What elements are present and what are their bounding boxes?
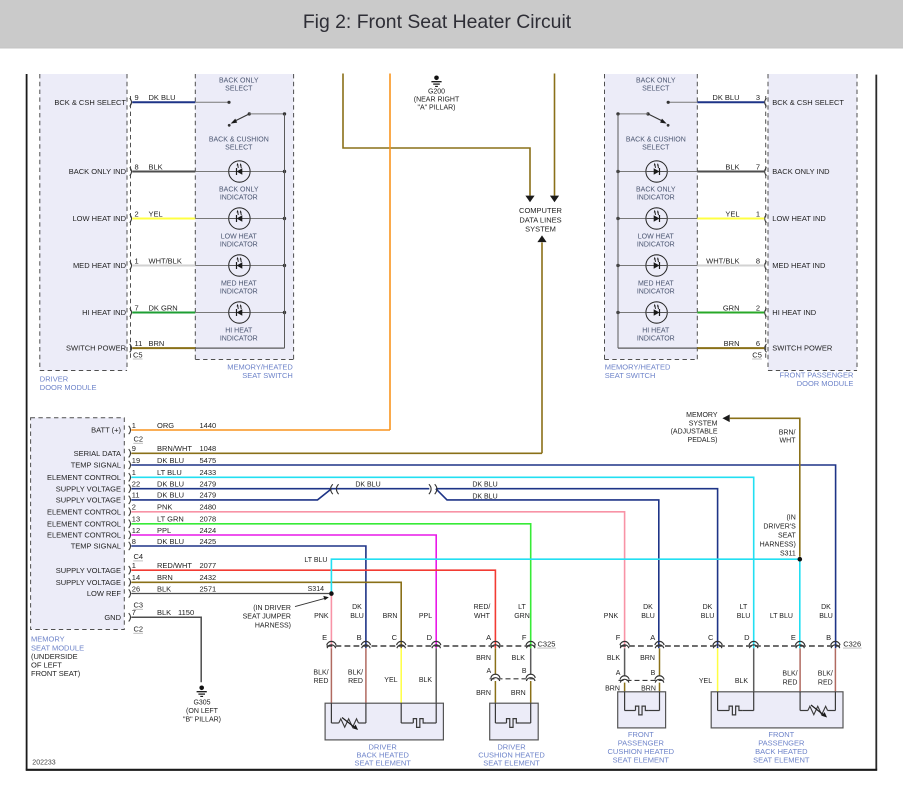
- svg-text:COMPUTER: COMPUTER: [519, 206, 563, 215]
- svg-text:C: C: [708, 633, 714, 642]
- svg-text:(NEAR RIGHT: (NEAR RIGHT: [414, 97, 460, 104]
- svg-text:SUPPLY VOLTAGE: SUPPLY VOLTAGE: [56, 578, 121, 587]
- svg-text:SELECT: SELECT: [225, 86, 253, 93]
- svg-text:DK BLU: DK BLU: [157, 491, 184, 500]
- svg-text:RED: RED: [348, 678, 363, 685]
- svg-text:RED: RED: [818, 679, 833, 686]
- svg-text:ORG: ORG: [157, 421, 174, 430]
- svg-text:12: 12: [132, 526, 140, 535]
- svg-text:BLU: BLU: [819, 613, 833, 620]
- svg-text:DK: DK: [703, 604, 713, 611]
- svg-text:PNK: PNK: [157, 503, 172, 512]
- svg-text:2: 2: [132, 503, 136, 512]
- svg-text:ELEMENT CONTROL: ELEMENT CONTROL: [47, 473, 121, 482]
- svg-text:BLU: BLU: [701, 613, 715, 620]
- svg-text:2425: 2425: [200, 537, 217, 546]
- svg-text:"B" PILLAR): "B" PILLAR): [183, 717, 221, 724]
- svg-text:8: 8: [756, 256, 760, 265]
- svg-text:B: B: [826, 633, 831, 642]
- svg-text:ELEMENT CONTROL: ELEMENT CONTROL: [47, 519, 121, 528]
- svg-text:SUPPLY VOLTAGE: SUPPLY VOLTAGE: [56, 566, 121, 575]
- svg-text:BLK/: BLK/: [348, 670, 363, 677]
- svg-text:BACK ONLY: BACK ONLY: [636, 78, 676, 85]
- svg-text:SWITCH POWER: SWITCH POWER: [772, 344, 833, 353]
- svg-text:GRN: GRN: [514, 613, 530, 620]
- svg-text:LT GRN: LT GRN: [157, 515, 184, 524]
- svg-text:SEAT JUMPER: SEAT JUMPER: [243, 614, 291, 621]
- svg-text:F: F: [616, 633, 621, 642]
- svg-text:2077: 2077: [200, 561, 217, 570]
- svg-text:G200: G200: [428, 89, 445, 96]
- svg-text:1048: 1048: [200, 444, 217, 453]
- svg-text:INDICATOR: INDICATOR: [220, 336, 258, 343]
- svg-text:C326: C326: [843, 639, 861, 648]
- svg-text:DK: DK: [821, 604, 831, 611]
- svg-text:SWITCH POWER: SWITCH POWER: [66, 344, 127, 353]
- svg-text:BATT (+): BATT (+): [91, 426, 121, 435]
- svg-text:Fig 2: Front Seat Heater Circu: Fig 2: Front Seat Heater Circuit: [303, 11, 572, 33]
- svg-text:DK: DK: [643, 604, 653, 611]
- svg-text:B: B: [651, 670, 656, 677]
- svg-text:FRONT SEAT): FRONT SEAT): [31, 669, 81, 678]
- svg-text:YEL: YEL: [699, 678, 712, 685]
- svg-text:8: 8: [135, 162, 139, 171]
- svg-text:RED/: RED/: [474, 604, 491, 611]
- svg-text:BLK: BLK: [149, 162, 163, 171]
- svg-text:PPL: PPL: [157, 526, 171, 535]
- svg-text:SYSTEM: SYSTEM: [525, 225, 556, 234]
- svg-text:INDICATOR: INDICATOR: [220, 195, 258, 202]
- svg-text:DK BLU: DK BLU: [157, 537, 184, 546]
- svg-text:BLU: BLU: [350, 613, 364, 620]
- svg-text:LT BLU: LT BLU: [770, 613, 793, 620]
- svg-text:8: 8: [132, 537, 136, 546]
- svg-text:2571: 2571: [200, 584, 217, 593]
- svg-text:DOOR MODULE: DOOR MODULE: [40, 383, 97, 392]
- svg-text:1: 1: [135, 256, 139, 265]
- svg-text:1: 1: [132, 468, 136, 477]
- svg-text:TEMP SIGNAL: TEMP SIGNAL: [71, 461, 121, 470]
- svg-text:INDICATOR: INDICATOR: [637, 195, 675, 202]
- svg-text:BCK & CSH SELECT: BCK & CSH SELECT: [772, 98, 844, 107]
- svg-text:BACK ONLY: BACK ONLY: [219, 187, 259, 194]
- svg-text:PNK: PNK: [314, 613, 329, 620]
- svg-text:BRN/WHT: BRN/WHT: [157, 444, 192, 453]
- svg-text:SEAT ELEMENT: SEAT ELEMENT: [613, 756, 670, 765]
- svg-text:YEL: YEL: [384, 677, 397, 684]
- svg-text:SUPPLY VOLTAGE: SUPPLY VOLTAGE: [56, 484, 121, 493]
- svg-text:1150: 1150: [178, 608, 194, 617]
- svg-text:7: 7: [756, 162, 760, 171]
- svg-text:(ADJUSTABLE: (ADJUSTABLE: [671, 429, 718, 436]
- svg-text:B: B: [522, 668, 527, 675]
- svg-text:BLK: BLK: [735, 678, 749, 685]
- svg-text:E: E: [791, 633, 796, 642]
- svg-text:INDICATOR: INDICATOR: [220, 242, 258, 249]
- svg-text:1440: 1440: [200, 421, 217, 430]
- svg-text:LOW HEAT: LOW HEAT: [221, 234, 258, 241]
- svg-text:PNK: PNK: [604, 613, 619, 620]
- svg-text:ELEMENT CONTROL: ELEMENT CONTROL: [47, 507, 121, 516]
- svg-text:YEL: YEL: [725, 209, 739, 218]
- svg-text:C2: C2: [134, 625, 144, 634]
- svg-text:1: 1: [132, 421, 136, 430]
- svg-text:LT BLU: LT BLU: [304, 557, 327, 564]
- svg-text:MED HEAT: MED HEAT: [221, 281, 257, 288]
- svg-text:9: 9: [132, 444, 136, 453]
- svg-text:DK: DK: [352, 604, 362, 611]
- svg-text:F: F: [522, 633, 527, 642]
- svg-text:RED: RED: [783, 679, 798, 686]
- svg-text:GND: GND: [104, 613, 121, 622]
- svg-text:BRN: BRN: [724, 339, 740, 348]
- svg-text:WHT/BLK: WHT/BLK: [149, 256, 182, 265]
- svg-text:HI HEAT: HI HEAT: [225, 328, 253, 335]
- svg-text:HI HEAT IND: HI HEAT IND: [772, 308, 816, 317]
- svg-text:2: 2: [135, 209, 139, 218]
- svg-text:MED HEAT: MED HEAT: [638, 281, 674, 288]
- svg-text:11: 11: [132, 491, 140, 500]
- svg-text:MEMORY: MEMORY: [31, 635, 65, 644]
- svg-text:(ON LEFT: (ON LEFT: [186, 708, 219, 715]
- svg-text:INDICATOR: INDICATOR: [637, 289, 675, 296]
- svg-text:5475: 5475: [200, 456, 217, 465]
- svg-text:LT: LT: [740, 604, 748, 611]
- svg-text:BLU: BLU: [641, 613, 655, 620]
- svg-text:LOW HEAT IND: LOW HEAT IND: [73, 214, 127, 223]
- svg-text:A: A: [487, 668, 492, 675]
- svg-text:BCK & CSH SELECT: BCK & CSH SELECT: [54, 98, 126, 107]
- svg-text:SEAT ELEMENT: SEAT ELEMENT: [483, 759, 540, 768]
- svg-text:DOOR MODULE: DOOR MODULE: [797, 379, 854, 388]
- svg-text:S311: S311: [780, 550, 796, 557]
- svg-text:2078: 2078: [200, 515, 217, 524]
- svg-text:RED/WHT: RED/WHT: [157, 561, 192, 570]
- svg-text:BLK/: BLK/: [818, 671, 833, 678]
- svg-text:19: 19: [132, 456, 140, 465]
- svg-text:SYSTEM: SYSTEM: [689, 420, 718, 427]
- svg-text:BACK & CUSHION: BACK & CUSHION: [626, 136, 686, 143]
- svg-text:LT BLU: LT BLU: [157, 468, 182, 477]
- svg-text:PEDALS): PEDALS): [688, 437, 718, 444]
- svg-text:BLK: BLK: [419, 677, 433, 684]
- svg-text:BACK & CUSHION: BACK & CUSHION: [209, 136, 269, 143]
- svg-text:G305: G305: [193, 699, 210, 706]
- svg-text:9: 9: [135, 93, 139, 102]
- svg-text:MEMORY: MEMORY: [686, 412, 718, 419]
- svg-text:WHT: WHT: [780, 438, 797, 445]
- svg-text:BACK ONLY: BACK ONLY: [219, 78, 259, 85]
- svg-text:ELEMENT CONTROL: ELEMENT CONTROL: [47, 531, 121, 540]
- svg-text:DK BLU: DK BLU: [157, 480, 184, 489]
- svg-text:C: C: [392, 633, 398, 642]
- svg-text:DK BLU: DK BLU: [712, 93, 739, 102]
- svg-text:2433: 2433: [200, 468, 217, 477]
- svg-text:2432: 2432: [200, 573, 217, 582]
- svg-text:DRIVER'S: DRIVER'S: [763, 523, 796, 530]
- svg-text:B: B: [357, 633, 362, 642]
- svg-text:SELECT: SELECT: [642, 86, 670, 93]
- svg-text:DK BLU: DK BLU: [472, 481, 497, 488]
- svg-text:11: 11: [135, 339, 143, 348]
- svg-text:2480: 2480: [200, 503, 217, 512]
- svg-text:LOW HEAT IND: LOW HEAT IND: [772, 214, 826, 223]
- svg-text:SEAT ELEMENT: SEAT ELEMENT: [753, 756, 810, 765]
- svg-text:2: 2: [756, 303, 760, 312]
- svg-text:26: 26: [132, 584, 140, 593]
- svg-text:D: D: [744, 633, 750, 642]
- svg-text:YEL: YEL: [149, 209, 163, 218]
- svg-text:BLK/: BLK/: [313, 670, 328, 677]
- svg-text:BLK: BLK: [512, 655, 526, 662]
- svg-text:3: 3: [756, 93, 760, 102]
- svg-text:C3: C3: [134, 601, 144, 610]
- svg-text:1: 1: [132, 561, 136, 570]
- svg-text:INDICATOR: INDICATOR: [220, 289, 258, 296]
- svg-text:2424: 2424: [200, 526, 217, 535]
- svg-text:DATA LINES: DATA LINES: [519, 215, 561, 224]
- svg-text:BACK ONLY: BACK ONLY: [636, 187, 676, 194]
- svg-text:BRN/: BRN/: [779, 429, 796, 436]
- svg-text:BLK: BLK: [725, 162, 739, 171]
- svg-text:SEAT ELEMENT: SEAT ELEMENT: [354, 759, 411, 768]
- svg-text:DK BLU: DK BLU: [149, 93, 176, 102]
- svg-text:(IN: (IN: [786, 515, 795, 522]
- svg-text:BACK ONLY IND: BACK ONLY IND: [69, 167, 127, 176]
- svg-text:HARNESS): HARNESS): [760, 541, 796, 548]
- svg-text:BRN: BRN: [383, 613, 398, 620]
- svg-text:GRN: GRN: [723, 303, 740, 312]
- svg-text:1: 1: [756, 209, 760, 218]
- svg-text:INDICATOR: INDICATOR: [637, 336, 675, 343]
- svg-text:INDICATOR: INDICATOR: [637, 242, 675, 249]
- svg-text:TEMP SIGNAL: TEMP SIGNAL: [71, 542, 121, 551]
- svg-text:SUPPLY VOLTAGE: SUPPLY VOLTAGE: [56, 496, 121, 505]
- svg-text:C325: C325: [538, 639, 556, 648]
- svg-text:BACK ONLY IND: BACK ONLY IND: [772, 167, 830, 176]
- svg-text:HARNESS): HARNESS): [255, 622, 291, 629]
- svg-text:BRN: BRN: [476, 690, 491, 697]
- svg-text:SEAT SWITCH: SEAT SWITCH: [605, 371, 656, 380]
- svg-text:BRN: BRN: [157, 573, 173, 582]
- svg-text:WHT/BLK: WHT/BLK: [706, 256, 739, 265]
- svg-text:A: A: [650, 633, 655, 642]
- svg-text:7: 7: [135, 303, 139, 312]
- svg-text:HI HEAT IND: HI HEAT IND: [82, 308, 126, 317]
- svg-text:E: E: [322, 633, 327, 642]
- svg-text:BRN: BRN: [476, 655, 491, 662]
- svg-text:D: D: [427, 633, 433, 642]
- svg-text:SEAT SWITCH: SEAT SWITCH: [242, 371, 293, 380]
- svg-text:2479: 2479: [200, 480, 217, 489]
- svg-text:"A" PILLAR): "A" PILLAR): [417, 105, 455, 112]
- svg-text:LOW REF: LOW REF: [87, 589, 122, 598]
- svg-text:2479: 2479: [200, 491, 217, 500]
- svg-text:BLK: BLK: [157, 608, 171, 617]
- svg-text:BLU: BLU: [737, 613, 751, 620]
- svg-text:SELECT: SELECT: [642, 144, 670, 151]
- svg-text:DK GRN: DK GRN: [149, 303, 178, 312]
- svg-text:13: 13: [132, 515, 140, 524]
- svg-text:A: A: [616, 670, 621, 677]
- svg-text:S314: S314: [308, 586, 324, 593]
- svg-text:C5: C5: [752, 350, 762, 359]
- svg-text:BLK: BLK: [607, 655, 621, 662]
- svg-text:(IN DRIVER: (IN DRIVER: [253, 605, 291, 612]
- svg-text:LOW HEAT: LOW HEAT: [638, 234, 675, 241]
- svg-text:C4: C4: [134, 552, 144, 561]
- svg-text:BRN: BRN: [511, 690, 526, 697]
- svg-text:22: 22: [132, 480, 140, 489]
- svg-text:A: A: [486, 633, 491, 642]
- svg-text:SERIAL DATA: SERIAL DATA: [74, 449, 121, 458]
- svg-text:14: 14: [132, 573, 140, 582]
- svg-text:202233: 202233: [32, 759, 55, 766]
- svg-text:MED HEAT IND: MED HEAT IND: [73, 261, 127, 270]
- svg-text:BLK: BLK: [157, 584, 171, 593]
- svg-text:PPL: PPL: [419, 613, 432, 620]
- svg-text:WHT: WHT: [474, 613, 491, 620]
- svg-text:SELECT: SELECT: [225, 144, 253, 151]
- svg-text:MED HEAT IND: MED HEAT IND: [772, 261, 826, 270]
- svg-text:BRN: BRN: [640, 655, 655, 662]
- svg-text:LT: LT: [518, 604, 526, 611]
- svg-text:(UNDERSIDE: (UNDERSIDE: [31, 652, 78, 661]
- svg-text:BLK/: BLK/: [782, 671, 797, 678]
- svg-text:DK BLU: DK BLU: [157, 456, 184, 465]
- svg-text:DK BLU: DK BLU: [355, 481, 380, 488]
- svg-text:C5: C5: [133, 350, 143, 359]
- svg-text:C2: C2: [134, 435, 144, 444]
- svg-text:BRN: BRN: [149, 339, 165, 348]
- svg-text:RED: RED: [314, 678, 329, 685]
- svg-text:SEAT: SEAT: [778, 532, 796, 539]
- svg-text:DK BLU: DK BLU: [472, 493, 497, 500]
- svg-text:HI HEAT: HI HEAT: [642, 328, 670, 335]
- svg-text:6: 6: [756, 339, 760, 348]
